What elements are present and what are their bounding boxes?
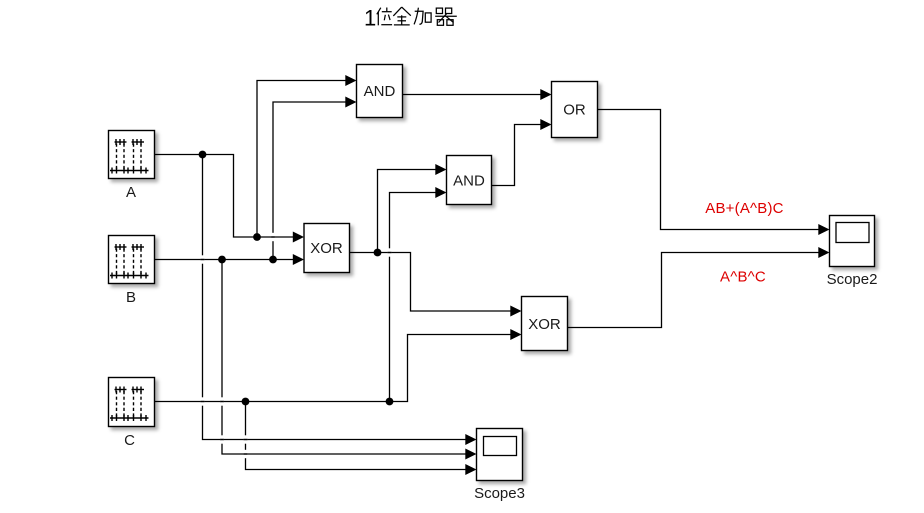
arrowhead XOR2 in2 xyxy=(510,329,521,340)
junction dot A branch xyxy=(199,151,207,159)
svg-text:B: B xyxy=(126,289,136,306)
scope Scope3 xyxy=(477,429,523,481)
svg-text:1: 1 xyxy=(364,5,376,30)
arrowhead XOR2 in1 xyxy=(510,306,521,317)
arrowhead AND1 in2 xyxy=(345,97,356,108)
svg-text:C: C xyxy=(124,432,135,449)
wire AND1 to OR in1 xyxy=(403,94,542,96)
arrowhead Scope3 in1 xyxy=(465,434,476,445)
and gate AND2 xyxy=(447,156,492,205)
crossing gap at A branch over B line xyxy=(201,255,205,263)
pulse generator A xyxy=(109,131,155,179)
wire B to XOR1 in2 xyxy=(155,259,295,261)
crossing gap at C branch over XOR1 out line xyxy=(388,248,392,256)
arrowhead AND2 in1 xyxy=(435,164,446,175)
wire branch C up to AND2 in2 xyxy=(390,193,437,402)
glyph jia 加 xyxy=(414,8,431,25)
wire branch C to Scope3 in3 xyxy=(246,402,467,470)
arrowhead Scope2 in2 xyxy=(818,247,829,258)
crossing gap at C branch over Scope3 in1 line xyxy=(244,435,248,443)
crossing gap at A branch over C line xyxy=(201,397,205,405)
wire branch A up to AND1 in1 xyxy=(257,81,347,238)
crossing gap at AND1 in2 branch over XOR1 in1 line xyxy=(271,233,275,241)
pulse generator B xyxy=(109,236,155,284)
wire branch XOR1 to AND2 in1 xyxy=(378,170,437,253)
arrowhead AND2 in2 xyxy=(435,187,446,198)
crossing gap at C branch over Scope3 in2 line xyxy=(244,450,248,458)
arrowhead Scope3 in3 xyxy=(465,464,476,475)
crossing gap at B branch over C line xyxy=(220,397,224,405)
svg-text:A: A xyxy=(126,184,136,201)
svg-text:A^B^C: A^B^C xyxy=(720,269,766,286)
junction dot C-AND2 branch xyxy=(386,398,394,406)
glyph qi 器 xyxy=(435,8,457,25)
svg-text:OR: OR xyxy=(563,102,586,119)
arrowhead OR in2 xyxy=(540,119,551,130)
junction dot XOR1-AND2 branch xyxy=(374,249,382,257)
xor gate XOR2 xyxy=(522,297,568,351)
junction dot A-AND1 branch xyxy=(253,233,261,241)
pulse generator C xyxy=(109,378,155,427)
svg-text:AND: AND xyxy=(364,83,396,100)
svg-text:AB+(A^B)C: AB+(A^B)C xyxy=(705,200,783,217)
arrowhead AND1 in1 xyxy=(345,75,356,86)
wire XOR1 to XOR2 in1 xyxy=(350,253,512,312)
arrowhead XOR1 in2 xyxy=(293,254,304,265)
or gate OR1 xyxy=(552,82,598,138)
arrowhead Scope3 in2 xyxy=(465,449,476,460)
title 1位全加器 xyxy=(364,5,457,30)
junction dot B-AND1 branch xyxy=(269,256,277,264)
junction dot B-Scope3 branch xyxy=(218,256,226,264)
wire branch B to Scope3 in2 xyxy=(222,260,467,455)
svg-text:AND: AND xyxy=(453,173,485,190)
wire OR to Scope2 in1 xyxy=(598,110,820,230)
arrowhead OR in1 xyxy=(540,89,551,100)
svg-text:Scope2: Scope2 xyxy=(827,271,878,288)
wire XOR2 to Scope2 in2 xyxy=(568,253,820,328)
wire branch A to Scope3 in1 xyxy=(203,155,467,440)
svg-text:XOR: XOR xyxy=(528,316,561,333)
scope Scope2 xyxy=(830,216,875,267)
crossing gap at B branch over Scope3 in1 line xyxy=(220,435,224,443)
wire C to XOR2 in2 xyxy=(155,335,512,402)
wire AND2 to OR in2 xyxy=(492,125,542,186)
glyph wei 位 xyxy=(377,8,392,26)
glyph quan 全 xyxy=(393,7,411,25)
xor gate XOR1 xyxy=(304,224,350,273)
wire branch B up to AND1 in2 xyxy=(273,102,347,260)
arrowhead Scope2 in1 xyxy=(818,224,829,235)
arrowhead XOR1 in1 xyxy=(293,232,304,243)
svg-text:Scope3: Scope3 xyxy=(474,485,525,502)
svg-text:XOR: XOR xyxy=(310,240,343,257)
junction dot C-Scope3 branch xyxy=(242,398,250,406)
and gate AND1 xyxy=(357,65,403,118)
wire A to XOR1 in1 xyxy=(155,155,295,238)
